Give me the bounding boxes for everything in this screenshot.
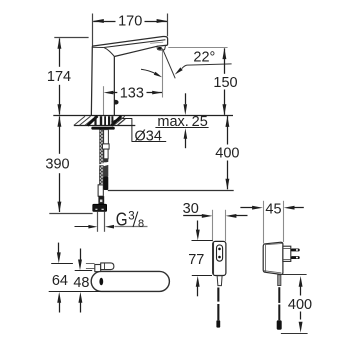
svg-text:174: 174	[47, 69, 71, 85]
svg-text:8: 8	[138, 218, 144, 230]
svg-text:64: 64	[52, 273, 68, 289]
svg-text:77: 77	[188, 252, 204, 268]
svg-text:400: 400	[288, 297, 312, 313]
svg-text:30: 30	[183, 201, 199, 217]
svg-text:170: 170	[118, 14, 142, 30]
svg-text:390: 390	[45, 157, 69, 173]
svg-text:150: 150	[213, 75, 237, 91]
svg-text:133: 133	[120, 86, 144, 102]
svg-text:G: G	[116, 210, 128, 230]
svg-text:400: 400	[215, 146, 239, 162]
svg-text:3: 3	[128, 210, 134, 222]
svg-text:22°: 22°	[193, 49, 215, 65]
svg-text:48: 48	[73, 275, 89, 291]
svg-text:Ø34: Ø34	[134, 129, 161, 145]
svg-text:45: 45	[265, 202, 281, 218]
